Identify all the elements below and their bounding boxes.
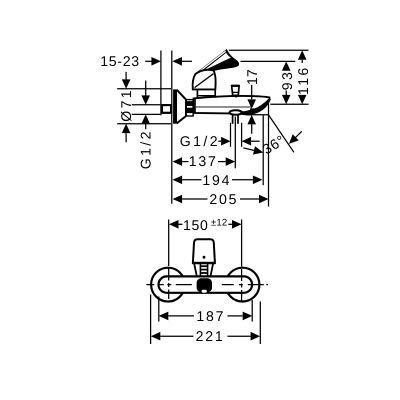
svg-text:187: 187: [196, 308, 225, 324]
187 extension lines: [158, 297, 160, 322]
handle saddle white wedge: [203, 53, 231, 71]
wall stub: [162, 105, 171, 113]
right circle horizontal center line: [222, 284, 268, 286]
escutcheon cone: [177, 90, 186, 123]
36 degree slant line: [268, 115, 294, 153]
shower outlet ellipse: [230, 110, 242, 115]
diverter knob (front view, black): [197, 278, 212, 292]
handle tail white sliver: [198, 51, 225, 72]
right escutcheon circle: [226, 268, 260, 302]
diverter knob (side view): [232, 86, 240, 95]
union nut: [186, 100, 193, 116]
left escutcheon center line (vertical): [168, 220, 170, 303]
outlet nipple sides: [232, 114, 234, 123]
dimension 150+-12: [169, 220, 179, 229]
ref line y=114.8: [246, 114, 269, 116]
extension line x=268.5 (205 right): [268, 102, 270, 207]
escutcheon face bar: [173, 89, 177, 123]
dimension O71 reference lines: [117, 88, 171, 90]
svg-text:221: 221: [196, 328, 225, 344]
handle (front view): [193, 239, 215, 263]
svg-text:G1/2: G1/2: [180, 133, 220, 149]
dimension 15-23 line and arrows: [145, 60, 151, 62]
svg-text:194: 194: [202, 172, 231, 188]
221 extension lines: [150, 295, 152, 345]
handle dome: [193, 70, 216, 90]
36 degree leader arrow (left): [243, 148, 255, 151]
handle dome seam: [195, 74, 214, 88]
cartridge cover trapezoid: [194, 264, 197, 277]
dimension G1/2 (wall stub) reference lines: [132, 104, 161, 106]
dimension 221: [151, 332, 161, 341]
svg-text:137: 137: [189, 153, 218, 169]
spout outlet bottom line: [240, 113, 252, 115]
handle indicator dot: [203, 256, 206, 259]
diverter ladder: [199, 264, 201, 277]
left escutcheon circle: [151, 268, 185, 302]
svg-text:116: 116: [295, 65, 311, 95]
handle bottom edge: [192, 262, 215, 264]
svg-text:Ø71: Ø71: [118, 88, 134, 122]
escutcheon face extension line: [171, 51, 173, 204]
body/union joint lines: [193, 98, 195, 113]
faucet body with spout: [194, 96, 270, 114]
dimension 93: [282, 61, 291, 70]
svg-text:G1/2: G1/2: [138, 129, 154, 169]
wall face extension line: [160, 51, 162, 116]
svg-text:205: 205: [209, 191, 238, 207]
svg-text:15-23: 15-23: [100, 53, 140, 69]
cartridge collar: [196, 89, 198, 97]
dimension 205: [173, 195, 183, 204]
handle lever silhouette (black): [195, 50, 238, 79]
spout underside black crescent: [240, 98, 270, 115]
svg-text:150: 150: [183, 217, 209, 233]
body mid contour line: [196, 106, 252, 108]
svg-text:17: 17: [244, 69, 260, 85]
extension line x=263.2 (194 right): [262, 115, 264, 185]
116 reference line (top): [229, 49, 309, 51]
dimension 187: [159, 312, 169, 321]
93/116 shared bottom reference line: [270, 103, 308, 105]
right escutcheon center line (vertical): [241, 220, 243, 308]
dimension O71 arrows: [125, 72, 127, 80]
short ref line y=109: [250, 108, 263, 110]
extension line x=235.3 (137 right): [234, 117, 236, 169]
dimension G1/2 (wall stub) arrows: [145, 81, 147, 96]
dimension 194: [173, 176, 183, 185]
left circle horizontal center line: [146, 284, 192, 286]
svg-text:±12: ±12: [211, 217, 228, 228]
dimension 116: [298, 50, 307, 59]
body bar (front view): [159, 276, 253, 292]
36 degree leader arrow (right): [296, 131, 302, 137]
dimension 137: [173, 157, 183, 166]
93 reference line (top): [241, 60, 296, 62]
svg-text:93: 93: [279, 70, 295, 90]
